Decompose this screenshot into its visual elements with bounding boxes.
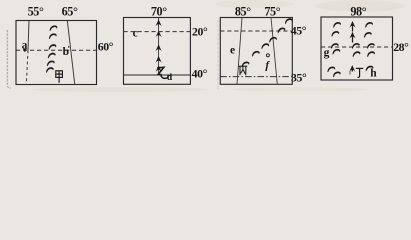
flow arrow r4c 丁	[367, 51, 375, 57]
frame 丙	[220, 18, 292, 85]
meridian arrow 3 乙	[156, 44, 162, 51]
frame 乙	[124, 18, 191, 85]
river arrow 3 丁	[349, 65, 355, 72]
svg-text:b: b	[63, 46, 69, 58]
flow arrow r5a 丁	[327, 66, 335, 72]
svg-text:d: d	[167, 73, 173, 83]
region label 乙	[157, 67, 168, 78]
flow arrow r4a 丁	[332, 49, 340, 55]
flow arrow r1c 丁	[365, 22, 373, 28]
region label 丁	[356, 68, 363, 77]
flow arrow 5 丙	[278, 27, 286, 33]
svg-text:70°: 70°	[151, 5, 167, 19]
point b tick	[68, 46, 70, 48]
svg-text:c: c	[133, 27, 138, 39]
flow arrow r2c 丁	[364, 32, 372, 38]
meridian 65°	[67, 21, 75, 85]
small tick before 丁	[349, 71, 351, 75]
flow arrow 4 甲	[48, 53, 56, 59]
svg-text:65°: 65°	[62, 5, 78, 19]
svg-text:g: g	[324, 47, 330, 59]
svg-text:35°: 35°	[291, 70, 307, 84]
meridian arrow 1 乙	[156, 19, 162, 26]
river arrow 2 丁	[349, 32, 355, 43]
meridian 75°	[271, 18, 277, 85]
flow arrow 6 丙	[285, 18, 293, 24]
river arrow 1 丁	[349, 21, 355, 32]
flow arrow r5c 丁	[366, 66, 374, 72]
svg-text:98°: 98°	[350, 5, 366, 19]
svg-text:85°: 85°	[235, 5, 251, 19]
meridian 55° upper	[28, 21, 29, 51]
latitude 35° line	[220, 76, 293, 78]
svg-text:20°: 20°	[192, 24, 208, 38]
flow arrow r4b 丁	[353, 51, 361, 57]
svg-text:h: h	[370, 67, 377, 79]
page-edge scan line left	[7, 30, 11, 88]
svg-text:55°: 55°	[28, 5, 44, 19]
background paper	[0, 0, 411, 92]
flow arrow 5 甲	[47, 60, 55, 66]
scan noise top right	[315, 0, 405, 12]
flow arrow r2a 丁	[331, 31, 339, 37]
svg-text:40°: 40°	[192, 67, 208, 81]
flow arrow 2 丙	[252, 51, 260, 57]
scan noise bottom streak 2	[230, 88, 370, 92]
meridian 85°	[237, 18, 242, 85]
flow arrow 1 丙	[242, 61, 250, 67]
flow arrow r6a 丁	[333, 71, 341, 77]
svg-text:45°: 45°	[291, 23, 307, 37]
flow arrow 3 甲	[49, 44, 57, 50]
flow arrow r3a 丁	[331, 43, 339, 49]
town circle o	[266, 54, 269, 57]
meridian arrow 2 乙	[156, 31, 162, 38]
flow arrow 3 丙	[261, 43, 269, 49]
latitude 60° dashed line	[16, 49, 98, 51]
frame 甲	[16, 21, 97, 85]
flow arrow r1a 丁	[333, 22, 341, 28]
svg-text:75°: 75°	[264, 5, 280, 19]
flow arrow r3c 丁	[367, 43, 375, 49]
flow arrow r3b 丁	[352, 43, 360, 49]
scan noise bottom streak	[30, 87, 210, 92]
flow arrow 2 甲	[49, 33, 57, 39]
faint fold line before map 丙	[217, 20, 219, 90]
svg-text:28°: 28°	[393, 40, 409, 54]
region label 丙	[239, 66, 248, 75]
flow arrow 6 甲	[46, 67, 54, 73]
latitude 45° dashed line	[220, 30, 291, 32]
meridian arrow 5 乙	[156, 65, 162, 72]
svg-text:60°: 60°	[98, 40, 114, 54]
region label 甲	[56, 71, 63, 83]
frame 丁	[321, 17, 393, 80]
meridian 55° lower dashed	[26, 50, 28, 84]
flow arrow 4 丙	[269, 37, 277, 43]
point a arrow	[23, 49, 27, 53]
latitude 20° dashed line	[124, 31, 192, 33]
meridian 70° line	[158, 18, 160, 75]
flow arrow 1 甲	[50, 25, 58, 31]
svg-text:e: e	[230, 44, 235, 56]
latitude 28° dashed line	[321, 46, 393, 48]
meridian arrow 4 乙	[156, 56, 162, 63]
latitude 40° line	[124, 74, 191, 76]
